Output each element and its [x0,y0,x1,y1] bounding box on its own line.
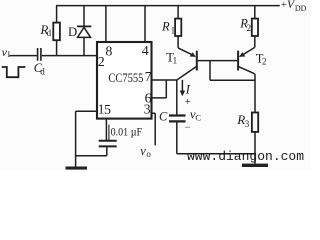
svg-text:I: I [185,81,191,96]
wire mirror link to T2 collector [210,79,255,81]
svg-text:C: C [195,113,201,123]
diode D [77,6,91,56]
wire T1 base to T2 base [198,60,237,62]
transistor Q2 T2 (PNP) [237,47,255,74]
wire 0.01uF bottom to ground [76,147,107,155]
wire C bottom to ground link [177,123,255,154]
svg-text:0.01 µF: 0.01 µF [111,125,143,139]
resistor R1 [175,6,181,48]
svg-text:2: 2 [98,55,105,70]
ground right [242,164,268,167]
wire base line down to mirror link [209,61,211,81]
wire pin 3 to vo terminal [151,113,155,145]
transistor Q1 T1 (PNP) [177,48,198,80]
svg-text:d: d [40,66,45,76]
capacitor C plates [169,116,186,122]
wire T2 collector down to R3 [254,74,256,113]
svg-text:d: d [47,28,52,38]
wire pin 7 to capacitor node [151,80,177,115]
input pulse waveform symbol [2,67,26,77]
wire pin 8 to rail [105,6,107,41]
svg-text:8: 8 [105,44,112,59]
svg-text:C: C [159,110,168,124]
resistor R3 [252,113,258,164]
capacitor Cd [38,48,41,61]
svg-text:−: − [185,122,191,133]
svg-text:DD: DD [295,4,307,13]
svg-text:R: R [161,19,170,33]
svg-text:v: v [140,144,146,158]
resistor Rd [53,6,60,56]
wire pin 4 to rail [144,6,146,41]
svg-text:+: + [281,0,287,11]
svg-text:www.diangon.com: www.diangon.com [187,149,304,164]
svg-text:7: 7 [145,69,152,84]
svg-text:1: 1 [173,56,178,66]
capacitor 0.01uF plates [99,141,117,147]
svg-text:o: o [146,149,151,159]
svg-text:D: D [68,25,77,39]
current arrow I [180,80,185,97]
svg-text:3: 3 [144,102,151,117]
wire pins 7,6 tie bar [151,80,166,98]
svg-text:5: 5 [104,103,111,118]
svg-text:4: 4 [142,44,149,59]
wire +VDD top rail [56,5,280,7]
svg-text:3: 3 [245,119,250,129]
svg-text:I: I [8,50,11,59]
ground left [66,167,88,170]
svg-text:2: 2 [262,57,267,67]
wire pin 5 down [105,120,107,141]
wire input node to pin 2 [10,55,98,57]
pin 5 label leader tick [108,125,110,141]
wire pin 1 to ground [76,111,97,167]
svg-text:2: 2 [247,23,252,33]
resistor R2 [252,6,258,48]
svg-text:CC7555: CC7555 [108,70,143,85]
op-amp U1 CC7555 IC body [97,42,152,119]
svg-text:1: 1 [171,25,176,35]
